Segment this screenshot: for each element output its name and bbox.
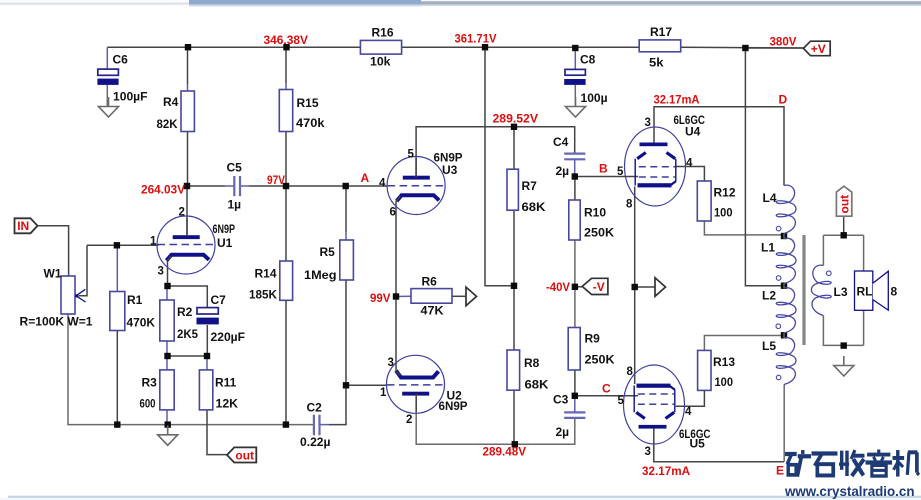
- svg-text:68K: 68K: [522, 200, 546, 214]
- svg-text:C8: C8: [580, 52, 596, 66]
- U3 pin5 lead inside: [415, 158, 417, 177]
- junction 99V node: [393, 293, 399, 299]
- svg-text:5: 5: [617, 166, 624, 178]
- potentiometer W1 body: [61, 276, 75, 314]
- flag out (speaker, vertical): [836, 186, 851, 216]
- svg-text:470K: 470K: [127, 316, 156, 330]
- junction 264.03V node: [184, 183, 190, 189]
- svg-text:C: C: [602, 382, 611, 396]
- wire shared cathode column U4 pin8 to U5 pin8: [634, 187, 636, 385]
- resistor R10 250K: [569, 200, 580, 240]
- U2 pin3 lead: [396, 371, 400, 376]
- svg-text:68K: 68K: [525, 378, 549, 392]
- svg-text:2K5: 2K5: [177, 327, 198, 341]
- svg-text:289.52V: 289.52V: [493, 112, 539, 126]
- svg-text:47K: 47K: [421, 304, 444, 318]
- wire R9 stubs: [574, 287, 576, 328]
- wire R2 stubs: [166, 286, 168, 300]
- svg-text:600: 600: [140, 397, 156, 411]
- wire R2/C7 bottom row: [167, 355, 207, 357]
- wire U1 pin2 from 264.03V node: [186, 186, 188, 236]
- svg-text:12K: 12K: [216, 397, 239, 411]
- svg-text:B: B: [599, 161, 608, 175]
- capacitor C2 0.22u plates: [314, 415, 320, 436]
- wire R4 stubs: [187, 47, 189, 84]
- svg-text:1: 1: [380, 387, 387, 399]
- svg-text:5: 5: [408, 149, 415, 161]
- wire U3 pin6 / U2 pin3 column through 99V node: [395, 202, 397, 297]
- junction node B: [572, 173, 578, 179]
- wire R11 stubs / to out flag: [206, 356, 208, 370]
- junction C7 bottom: [204, 353, 210, 359]
- ground below C6: [99, 97, 119, 117]
- svg-text:185K: 185K: [249, 288, 277, 302]
- wire R10 stubs: [574, 177, 576, 201]
- junction 289.48V node: [512, 441, 518, 447]
- svg-text:5k: 5k: [649, 55, 664, 69]
- svg-text:www.crystalradio.cn: www.crystalradio.cn: [784, 484, 914, 499]
- wire C7 bottom lead: [206, 325, 208, 356]
- potentiometer W1 wiper arrow: [76, 289, 86, 302]
- junction 97V node: [283, 183, 289, 189]
- wire 264.03V node to C5: [187, 185, 225, 187]
- svg-text:3: 3: [645, 446, 651, 458]
- resistor R8 68K: [507, 350, 520, 390]
- inductor L3 secondary: [811, 265, 831, 315]
- svg-text:L4: L4: [763, 191, 777, 205]
- winding stubs: [783, 234, 785, 239]
- wire L3 bottom lead: [823, 316, 863, 346]
- wire L3 top lead: [822, 235, 824, 265]
- svg-text:8: 8: [626, 199, 633, 211]
- svg-text:R8: R8: [524, 356, 540, 370]
- wire R1 stubs: [116, 245, 118, 291]
- svg-text:U3: U3: [442, 163, 458, 177]
- svg-text:8: 8: [891, 285, 898, 299]
- svg-text:264.03V: 264.03V: [141, 183, 185, 197]
- ground at R3 cathode rail: [158, 425, 178, 445]
- svg-text:D: D: [779, 93, 788, 107]
- resistor R16 10k: [360, 40, 401, 54]
- svg-text:3: 3: [645, 117, 651, 129]
- wire R13 bottom to U5 pin4: [676, 390, 705, 406]
- junction gnd rail R3: [165, 421, 171, 427]
- junction U1 cathode node: [164, 283, 170, 289]
- U3 pin6 lead: [396, 196, 400, 201]
- svg-text:L2: L2: [762, 289, 776, 303]
- svg-text:E: E: [776, 464, 784, 478]
- junction R2 bottom: [164, 353, 170, 359]
- wire W1 wiper: [79, 245, 88, 295]
- wire L2/L5 tap to R13: [704, 336, 781, 351]
- svg-text:0.22µ: 0.22µ: [300, 435, 331, 449]
- junction node C: [572, 393, 578, 399]
- svg-text:L1: L1: [761, 241, 775, 255]
- triode U2 6N9P (flipped): [387, 355, 445, 413]
- svg-text:4: 4: [686, 157, 693, 169]
- resistor R4 82K: [181, 91, 194, 132]
- svg-text:2: 2: [406, 414, 412, 426]
- svg-text:8: 8: [627, 366, 634, 378]
- svg-text:R6: R6: [422, 275, 438, 289]
- wire U3 pin5 to 289.52V node to C4: [416, 127, 575, 176]
- pentode U4 6L6GC: [625, 127, 686, 206]
- junction L1/L2 center tap: [781, 283, 787, 289]
- svg-text:2: 2: [179, 207, 185, 219]
- wire C4 bottom lead to node B: [574, 159, 576, 176]
- wire RL leads: [863, 235, 865, 271]
- wire node B to U4 pin5: [575, 176, 638, 178]
- svg-text:U1: U1: [217, 236, 233, 250]
- junction rail-C8: [572, 45, 578, 51]
- svg-text:-V: -V: [593, 280, 605, 294]
- junction U2 grid node: [343, 382, 349, 388]
- svg-text:470k: 470k: [296, 116, 325, 130]
- U2 pin2 lead inside: [415, 394, 417, 412]
- svg-text:100: 100: [714, 206, 733, 220]
- svg-text:R4: R4: [163, 95, 179, 109]
- wire 361.71V to R7/R8 node: [485, 47, 511, 286]
- flag +V: [803, 41, 830, 56]
- resistor R6 47K: [411, 289, 452, 304]
- resistor R13 100: [698, 350, 711, 390]
- svg-text:R16: R16: [372, 26, 394, 40]
- wire cathode node to C7: [168, 286, 208, 308]
- svg-text:L3: L3: [834, 285, 848, 299]
- ground speaker: [834, 356, 854, 376]
- svg-text:99V: 99V: [370, 291, 391, 305]
- svg-text:5: 5: [618, 395, 625, 407]
- inductor L4: [776, 185, 796, 233]
- junction R1 top: [114, 242, 120, 248]
- svg-text:U5: U5: [690, 437, 706, 451]
- junction output cathode node: [632, 284, 638, 290]
- transformer core: [802, 235, 805, 345]
- net arrow at cathode node: [655, 278, 666, 297]
- wire -40V node to -V flag: [575, 286, 583, 288]
- svg-text:32.17mA: 32.17mA: [642, 464, 690, 478]
- svg-text:U4: U4: [685, 125, 701, 139]
- resistor R15 470k: [279, 90, 292, 132]
- junction 286.5,47.2 rail-R15: [283, 44, 289, 50]
- svg-text:C4: C4: [553, 135, 569, 149]
- junction -40V node: [572, 284, 578, 290]
- svg-text:100µ: 100µ: [581, 91, 608, 105]
- resistor R17 5k: [639, 40, 681, 52]
- wire U4 plate to node D to transformer: [654, 107, 784, 186]
- wire R6 to arrow: [452, 295, 466, 297]
- wire U5 plate to node E: [654, 428, 784, 462]
- wire U2 pin2 to 289.48V rail: [416, 396, 575, 445]
- wire L5 tail down to node E: [783, 385, 785, 462]
- svg-text:250K: 250K: [585, 353, 615, 367]
- svg-text:250K: 250K: [584, 226, 614, 240]
- flag out (R11): [227, 447, 256, 462]
- flag -V: [582, 278, 608, 294]
- wire R5 top stub: [345, 186, 347, 232]
- svg-text:1: 1: [150, 236, 157, 248]
- svg-text:100: 100: [715, 375, 734, 389]
- svg-text:R14: R14: [255, 267, 277, 281]
- svg-text:32.17mA: 32.17mA: [654, 93, 700, 107]
- resistor R11 12K: [199, 370, 212, 410]
- inductor L1: [776, 238, 796, 283]
- junction gnd rail R1: [114, 421, 120, 427]
- svg-text:2µ: 2µ: [556, 425, 570, 439]
- svg-text:R17: R17: [650, 25, 672, 39]
- junction gnd rail R14: [283, 421, 289, 427]
- svg-text:W1: W1: [44, 266, 62, 280]
- wire C3 top lead: [574, 396, 576, 413]
- wire C5 to 97V node to node A: [240, 185, 249, 187]
- svg-text:C7: C7: [211, 293, 227, 307]
- triode U1 6N9P: [157, 216, 215, 274]
- wire cathode node to arrow: [635, 286, 655, 288]
- svg-text:R11: R11: [215, 376, 237, 390]
- U1 pin2 lead inside: [186, 218, 188, 236]
- wire R8 stubs: [513, 286, 515, 350]
- wire +V flag stub: [745, 47, 803, 49]
- junction L2/L5 tap: [781, 332, 787, 338]
- resistor R14 185K: [280, 261, 293, 300]
- U1 pin3 lead: [168, 256, 171, 260]
- svg-text:289.48V: 289.48V: [483, 445, 527, 459]
- inductor L2: [776, 288, 796, 333]
- svg-text:6: 6: [390, 207, 396, 219]
- wire 99V node to R6: [396, 295, 411, 297]
- svg-text:82K: 82K: [157, 117, 178, 131]
- svg-text:2µ: 2µ: [556, 164, 570, 178]
- wire U4 pin4 to R12: [676, 167, 705, 182]
- svg-text:R15: R15: [297, 96, 319, 110]
- svg-text:100µF: 100µF: [113, 90, 148, 104]
- junction speaker bottom node: [841, 342, 847, 348]
- speaker RL horn: [873, 271, 889, 310]
- svg-text:R=100K W=1: R=100K W=1: [20, 315, 93, 329]
- capacitor C8 100u electrolytic: [565, 69, 585, 75]
- wire top supply rail: [107, 46, 360, 48]
- svg-text:3: 3: [388, 357, 394, 369]
- resistor R7 68K: [507, 169, 518, 210]
- svg-text:R9: R9: [585, 332, 601, 346]
- junction speaker top node: [841, 232, 847, 238]
- resistor R5 1Meg: [340, 240, 354, 280]
- capacitor C4 2u plates: [564, 154, 585, 160]
- junction 188,47.2 rail-R4: [185, 44, 191, 50]
- wire node A to U3 pin4: [346, 185, 388, 187]
- svg-text:4: 4: [379, 178, 386, 190]
- svg-text:361.71V: 361.71V: [455, 32, 497, 46]
- resistor R12 100: [697, 181, 711, 221]
- junction L4/L1 tap: [781, 233, 787, 239]
- svg-text:A: A: [361, 171, 370, 185]
- wire U2 pin1: [346, 384, 386, 386]
- svg-text:R1: R1: [127, 293, 143, 307]
- wire out flag to speaker top node: [843, 216, 845, 235]
- svg-text:C2: C2: [307, 401, 323, 415]
- svg-text:3: 3: [158, 266, 164, 278]
- svg-text:346.38V: 346.38V: [264, 33, 309, 47]
- svg-text:out: out: [235, 448, 254, 462]
- flag IN: [15, 218, 38, 233]
- svg-text:RL: RL: [857, 285, 873, 299]
- svg-text:IN: IN: [17, 219, 29, 233]
- inductor L5: [776, 338, 796, 385]
- capacitor C5 1u plates: [234, 176, 240, 196]
- wire R15 stubs: [285, 47, 287, 83]
- junction 289.52V node: [511, 124, 517, 130]
- svg-text:C5: C5: [227, 161, 243, 175]
- svg-text:R5: R5: [320, 245, 336, 259]
- wire R14 stubs: [285, 186, 287, 261]
- wire grid row to U1 pin1: [87, 244, 159, 246]
- ground below C8: [566, 97, 586, 117]
- svg-text:L5: L5: [762, 339, 776, 353]
- svg-text:R12: R12: [714, 186, 736, 200]
- svg-text:10k: 10k: [370, 54, 391, 68]
- wire C6 leads: [106, 47, 108, 69]
- resistor R3 600: [160, 370, 174, 410]
- wire R12 bottom to L4/L1 tap: [704, 221, 781, 235]
- svg-text:C6: C6: [113, 53, 129, 67]
- triode U3 6N9P: [387, 157, 445, 215]
- junction 361.71V node: [482, 44, 488, 50]
- wire R3 stubs: [166, 356, 168, 370]
- svg-text:R2: R2: [177, 305, 193, 319]
- svg-text:6N9P: 6N9P: [213, 222, 236, 236]
- svg-text:4: 4: [685, 406, 692, 418]
- browser chrome top strip: [0, 0, 921, 6]
- wire W1 bottom + ground rail: [68, 314, 314, 425]
- junction node A: [343, 183, 349, 189]
- svg-text:out: out: [838, 195, 852, 214]
- wire C2 right lead to U2 pin1 column: [319, 424, 329, 426]
- svg-text:6N9P: 6N9P: [439, 399, 468, 413]
- resistor R1 470K: [110, 292, 125, 331]
- capacitor C3 2u plates: [564, 412, 585, 418]
- svg-text:R7: R7: [522, 179, 538, 193]
- wire speaker loop top: [823, 234, 863, 236]
- capacitor C7 220uF electrolytic: [197, 308, 218, 314]
- resistor R9 250K: [568, 328, 580, 371]
- wire U1 pin3 to cathode node: [167, 261, 169, 287]
- wire R7 stubs: [513, 127, 515, 169]
- svg-text:1Meg: 1Meg: [304, 268, 337, 282]
- wire IN to W1: [38, 226, 69, 276]
- browser chrome bottom strip: [0, 496, 921, 500]
- wire node C to U5 pin5: [575, 395, 638, 397]
- junction R7/R8 node: [511, 283, 517, 289]
- svg-text:R3: R3: [142, 376, 158, 390]
- watermark CJK brand text: [785, 450, 811, 477]
- svg-text:C3: C3: [553, 393, 569, 407]
- wire C8 leads: [574, 48, 576, 69]
- resistor R2 2K5: [160, 300, 174, 341]
- pentode U5 6L6GC (flipped): [624, 365, 685, 444]
- svg-text:97V: 97V: [267, 173, 285, 187]
- svg-text:+V: +V: [811, 42, 826, 56]
- wire +V rail down to center tap: [745, 48, 781, 286]
- capacitor C6 100uF electrolytic: [98, 69, 119, 75]
- net arrow at R6: [466, 287, 477, 306]
- junction 380V node: [742, 45, 748, 51]
- svg-text:220µF: 220µF: [211, 330, 246, 344]
- svg-text:1µ: 1µ: [228, 197, 242, 211]
- svg-text:380V: 380V: [770, 34, 797, 48]
- svg-text:-40V: -40V: [546, 280, 570, 294]
- svg-text:R10: R10: [584, 206, 606, 220]
- speaker RL box: [855, 271, 873, 310]
- svg-text:R13: R13: [713, 355, 735, 369]
